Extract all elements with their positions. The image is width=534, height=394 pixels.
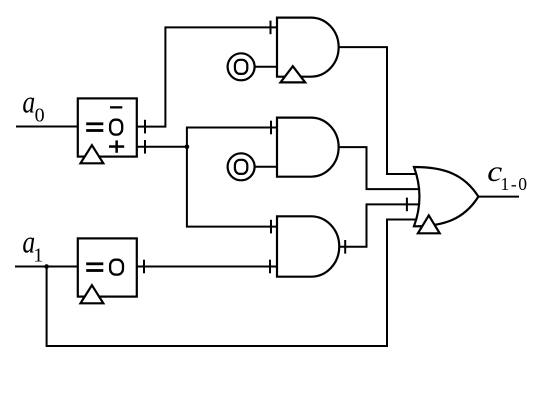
wire node A to bottom AND input 1 xyxy=(187,147,277,227)
U1 plus sign xyxy=(109,145,124,148)
tick bottom AND input 2 xyxy=(269,260,271,274)
G1 clock triangle xyxy=(281,66,306,82)
tick box1 bottom output xyxy=(144,140,146,154)
wire a0 input xyxy=(17,126,78,128)
wire top constant O to top AND input 2 xyxy=(256,66,277,68)
svg-text:1: 1 xyxy=(33,245,43,267)
constant O source middle xyxy=(228,153,255,180)
AND gate G3 (bottom) xyxy=(277,216,339,276)
svg-text:1-0: 1-0 xyxy=(501,174,529,194)
OR gate G4 xyxy=(414,167,478,226)
wire top AND output to OR input 1 xyxy=(339,47,421,174)
wire a1 long feedback to OR input 4 xyxy=(47,220,420,347)
tick bottom AND input 1 xyxy=(270,220,272,234)
wire node A to middle AND input 1 xyxy=(187,128,277,147)
U1 clock triangle xyxy=(81,145,104,163)
tick top AND input 1 xyxy=(270,21,272,35)
wire middle constant O to middle AND input 2 xyxy=(256,166,277,168)
U2 clock triangle xyxy=(81,285,104,303)
register box U2 (=O) xyxy=(78,238,137,296)
register box U1 (=O with bar and plus) xyxy=(78,98,137,156)
svg-text:a: a xyxy=(22,85,35,120)
tick box1 top output xyxy=(144,120,146,134)
constant O source top xyxy=(228,53,255,80)
U2 equals sign xyxy=(86,262,103,265)
svg-text:0: 0 xyxy=(35,105,45,127)
wire OR output xyxy=(478,196,518,198)
wire box1 top output to top AND input 1 xyxy=(137,27,277,126)
node A junction dot xyxy=(185,145,190,150)
wire bottom AND output to OR input 3 xyxy=(339,204,420,246)
U1 equals sign xyxy=(86,122,103,125)
wire box1 bottom output to node A xyxy=(137,146,187,148)
AND gate G2 (middle) xyxy=(277,118,339,177)
wire a1 input xyxy=(16,266,78,268)
tick middle AND input 1 xyxy=(270,121,272,135)
AND gate G1 (top) xyxy=(277,18,339,77)
tick bottom AND output xyxy=(344,240,346,254)
G4 clock triangle xyxy=(418,215,440,233)
wire box2 output to bottom AND input 2 xyxy=(137,266,277,268)
node a1 junction dot xyxy=(44,264,49,269)
tick OR input 3 xyxy=(406,198,408,212)
U1 letter O xyxy=(110,120,122,135)
tick box2 output near box xyxy=(143,260,145,274)
wire middle AND output to OR input 2 xyxy=(339,147,421,189)
U2 letter O xyxy=(110,260,123,275)
U1 overbar xyxy=(110,106,122,108)
